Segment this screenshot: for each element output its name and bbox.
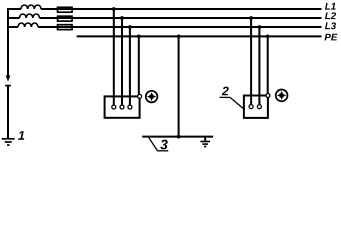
label L3 [325,22,336,29]
wire PE line [77,35,322,37]
wire drop L3 to load 1 [129,27,131,105]
wire PE drop to load 1 [138,36,140,94]
terminal circle load 1 phase A [112,105,116,109]
node tap L3 for load 1 [128,25,132,29]
fuse F3 [58,25,73,30]
wire L3 line [8,26,322,28]
wire L1 line [8,8,322,10]
load 2 box [244,96,268,118]
winding coil on L1 [21,5,41,9]
terminal circle load 1 PE corner [138,94,142,98]
node junction on earthing bar [177,135,181,139]
node tap PE for earthing conductor [177,35,181,39]
label 2 underline [220,96,231,98]
equipment earth symbol (circled star) at load 2 [276,90,288,102]
terminal circle load 2 phase A [249,105,253,109]
terminal circle load 1 phase C [128,105,132,109]
label 3 [160,140,167,150]
load 1 box [105,96,140,117]
wire drop L2 to load 1 [121,18,123,105]
node tap L3 for load 2 [258,25,262,29]
winding coil on L2 [20,14,40,18]
label 1 [18,131,24,140]
node tap L2 for load 1 [120,16,124,20]
earth electrode 1 top bar [5,85,11,87]
winding coil on L3 [18,23,38,27]
label 3 underline [157,150,169,152]
equipment earth symbol (circled star) at load 1 [146,91,158,103]
wire ground stub (right) [204,137,206,141]
ground symbol (electrode 1) [2,139,15,145]
fuse F2 [58,16,73,21]
wire L2 line [8,17,322,19]
node tap L1 for load 1 [112,7,116,11]
wire neutral bus (left) [7,8,9,78]
leader line label 2 [230,98,244,109]
leader line label 3 [149,138,157,151]
terminal circle load 1 phase B [120,105,124,109]
label PE [325,34,338,41]
arrow to earth electrode 1 [6,76,11,82]
node tap PE for load 2 [266,35,270,39]
terminal circle load 2 PE corner [266,94,270,98]
earthing bar 3 [142,136,213,138]
label L1 [325,3,336,10]
node tap L2 for load 2 [249,16,253,20]
fuse F1 [58,7,73,12]
wire PE to earthing bar [178,36,180,136]
terminal circle load 2 phase B [257,105,261,109]
wire electrode 1 down lead [7,86,9,139]
wire drop L1 to load 1 [113,9,115,105]
ground symbol (right) [200,142,210,147]
label 2 [222,87,229,96]
node tap PE for load 1 [137,35,141,39]
wire drop L2 to load 2 [250,18,252,105]
wire drop L3 to load 2 [258,27,260,105]
label L2 [325,12,336,19]
wire PE drop to load 2 [267,36,269,93]
